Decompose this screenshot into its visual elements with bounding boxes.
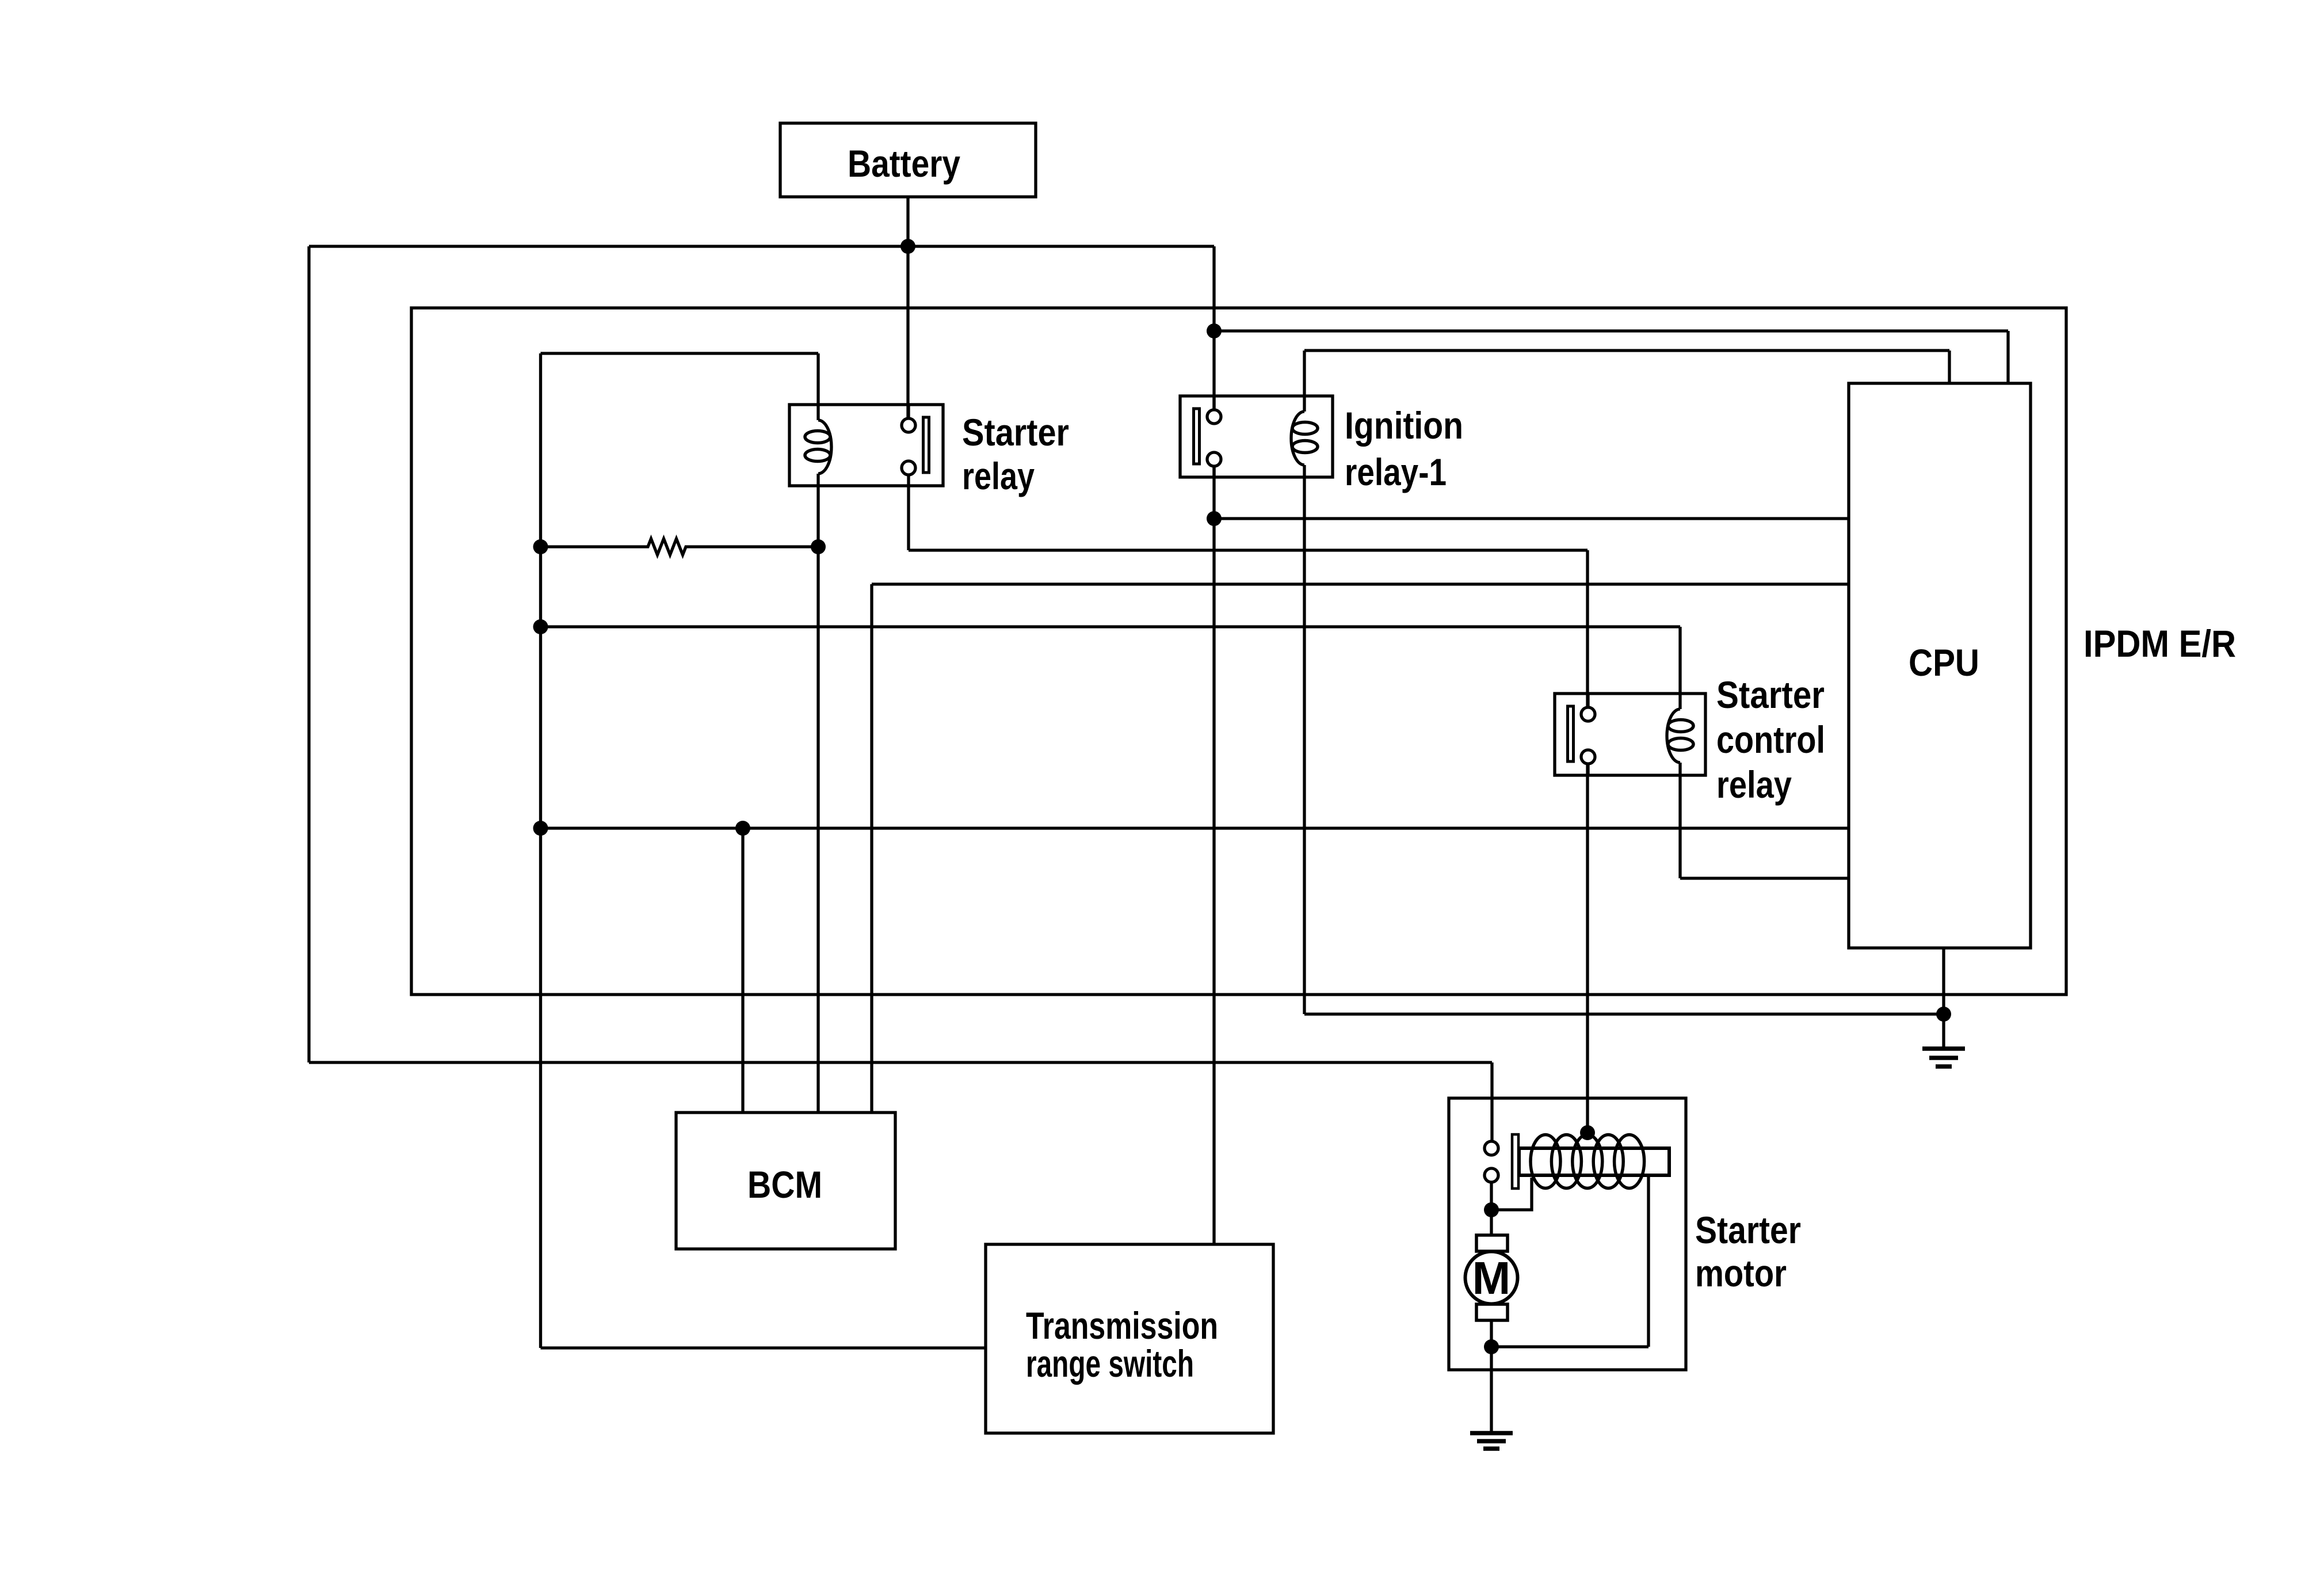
svg-text:Starter: Starter [1695, 1209, 1801, 1251]
svg-text:relay: relay [1716, 763, 1792, 806]
svg-text:Starter: Starter [1716, 673, 1825, 716]
svg-text:Transmission: Transmission [1026, 1304, 1218, 1347]
svg-text:relay-1: relay-1 [1345, 451, 1447, 493]
svg-text:BCM: BCM [747, 1163, 822, 1206]
svg-text:control: control [1716, 718, 1825, 761]
svg-text:relay: relay [962, 455, 1035, 497]
svg-text:IPDM E/R: IPDM E/R [2083, 622, 2236, 665]
svg-text:Starter: Starter [962, 411, 1069, 454]
svg-text:motor: motor [1695, 1252, 1787, 1294]
svg-text:CPU: CPU [1909, 641, 1979, 684]
svg-text:range switch: range switch [1026, 1342, 1194, 1385]
svg-text:Battery: Battery [848, 142, 960, 185]
svg-text:Ignition: Ignition [1345, 404, 1463, 447]
svg-text:M: M [1472, 1252, 1511, 1304]
